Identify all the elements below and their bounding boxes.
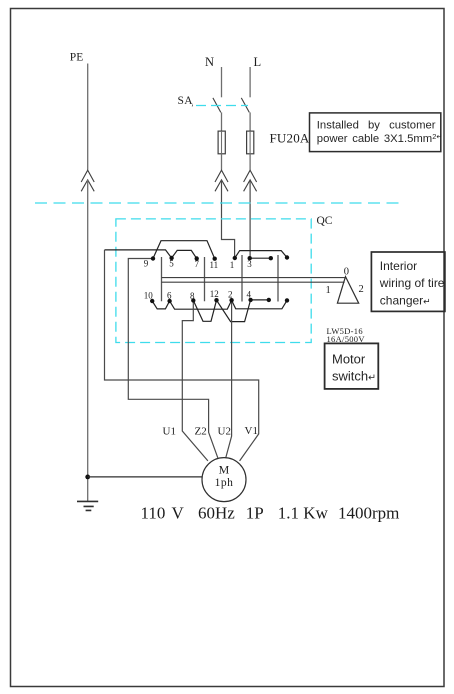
- wire N lower vertical with jog to contact 1: [222, 180, 235, 258]
- svg-text:2: 2: [359, 284, 364, 295]
- wire PE junction to motor: [88, 476, 203, 478]
- wire contact 8 to U1: [182, 300, 208, 461]
- note box: motor switch: [325, 343, 379, 389]
- svg-text:0: 0: [344, 267, 349, 278]
- bridge 8-12: [193, 300, 216, 321]
- svg-text:Interior: Interior: [380, 259, 417, 273]
- connector chevrons on PE: [81, 170, 94, 191]
- wire PE lower vertical: [87, 180, 89, 501]
- wire bridge 5-7 to V1: [105, 250, 259, 461]
- boundary dashed line (customer/machine): [35, 202, 400, 204]
- svg-text:M: M: [219, 463, 230, 477]
- contact dot 10: [150, 299, 154, 303]
- contact dot 4: [248, 298, 252, 302]
- svg-text:1: 1: [230, 260, 235, 270]
- switch position indicator triangle: [337, 277, 358, 304]
- svg-text:60Hz: 60Hz: [198, 503, 235, 522]
- svg-text:11: 11: [210, 260, 219, 270]
- connector chevrons on N: [215, 170, 228, 191]
- svg-text:9: 9: [144, 259, 149, 269]
- svg-text:wiring of tire: wiring of tire: [379, 276, 445, 290]
- fuse FU (N phase) body: [218, 131, 225, 154]
- svg-text:Z2: Z2: [195, 426, 207, 438]
- bridge 1 to right contact: [235, 251, 287, 258]
- wire L below fuse: [249, 154, 251, 170]
- bridge 9-11: [153, 241, 215, 259]
- svg-text:1: 1: [326, 285, 331, 296]
- svg-text:L: L: [254, 55, 262, 69]
- bar contact 3 to right contact: [250, 257, 271, 259]
- svg-text:110 V: 110 V: [141, 503, 185, 522]
- switch SA pole N blade: [213, 98, 221, 113]
- contact dot 8: [191, 298, 195, 302]
- svg-text:V1: V1: [245, 425, 258, 437]
- svg-text:3: 3: [247, 259, 252, 269]
- connector chevrons on L: [244, 170, 257, 191]
- svg-text:1.1 Kw: 1.1 Kw: [278, 503, 329, 522]
- wire contact 9 to Z2: [128, 259, 218, 458]
- contact dot 12: [214, 298, 218, 302]
- svg-text:QC: QC: [317, 215, 333, 227]
- svg-text:changer↵: changer↵: [380, 294, 431, 308]
- bridge 5-7 with feed wire: [105, 250, 197, 259]
- switch SA mechanical link (cyan dashed): [196, 105, 248, 107]
- svg-text:4: 4: [247, 290, 252, 300]
- note box: interior wiring of tire changer: [371, 252, 445, 311]
- switch QC enclosure (cyan dashed box): [116, 219, 311, 343]
- svg-text:Motor: Motor: [332, 352, 366, 367]
- svg-text:Installed by customer: Installed by customer: [317, 120, 436, 132]
- switch QC actuator shaft double line: [162, 278, 345, 283]
- svg-text:7: 7: [195, 259, 200, 269]
- contact dot right end bottom: [285, 298, 289, 302]
- contact dot right end top: [285, 255, 289, 259]
- wire PE upper vertical: [87, 64, 89, 170]
- switch SA pole L blade: [241, 98, 249, 113]
- contact dot 9: [151, 256, 155, 260]
- svg-text:1P: 1P: [246, 503, 264, 522]
- svg-text:2: 2: [228, 290, 233, 300]
- svg-text:8: 8: [190, 291, 195, 301]
- wire L fuse internal: [249, 131, 251, 154]
- bar contact 4 to right contact: [251, 299, 269, 301]
- svg-text:5: 5: [169, 259, 174, 269]
- wire L lower vertical to contact 3: [249, 180, 251, 258]
- contact dot 3: [248, 256, 252, 260]
- wire N fuse internal: [221, 131, 223, 154]
- bridge 10-6-2-right (lower rail): [152, 300, 287, 309]
- motor M circle: [202, 458, 246, 502]
- wire N to fuse: [221, 112, 223, 131]
- wire N below fuse: [221, 154, 223, 170]
- contact dot 6: [167, 299, 171, 303]
- svg-text:N: N: [205, 55, 214, 69]
- svg-text:10: 10: [144, 291, 154, 301]
- switch QC pole barrier bars: [162, 255, 279, 302]
- svg-text:12: 12: [210, 289, 219, 299]
- contact dot 2: [229, 298, 233, 302]
- wire N upper vertical: [221, 67, 223, 97]
- contact dot right of 3: [269, 256, 273, 260]
- contact dot 11: [213, 257, 217, 261]
- svg-text:6: 6: [167, 291, 172, 301]
- svg-text:switch↵: switch↵: [332, 369, 376, 384]
- fuse FU (L phase) body: [247, 131, 254, 154]
- wire contact 2 to U2: [226, 300, 232, 458]
- svg-text:FU20A: FU20A: [270, 131, 310, 146]
- wire L to fuse: [249, 112, 251, 131]
- contact dot 7: [195, 256, 199, 260]
- svg-text:,: ,: [192, 99, 194, 108]
- contact dot 5: [169, 256, 173, 260]
- junction dot PE to motor: [85, 475, 90, 480]
- svg-text:1400rpm: 1400rpm: [338, 503, 399, 522]
- contact dot 1: [233, 256, 237, 260]
- svg-text:PE: PE: [70, 52, 83, 64]
- contact dot right of 4: [267, 298, 271, 302]
- svg-text:U1: U1: [163, 426, 176, 438]
- wire L upper vertical: [249, 67, 251, 97]
- ground symbol: [77, 501, 98, 510]
- svg-text:1ph: 1ph: [215, 477, 234, 489]
- bridge 12-4: [217, 300, 251, 322]
- svg-text:power cable 3X1.5mm2↵: power cable 3X1.5mm2↵: [317, 132, 443, 145]
- note box: installed by customer: [310, 113, 441, 152]
- svg-text:U2: U2: [218, 426, 231, 438]
